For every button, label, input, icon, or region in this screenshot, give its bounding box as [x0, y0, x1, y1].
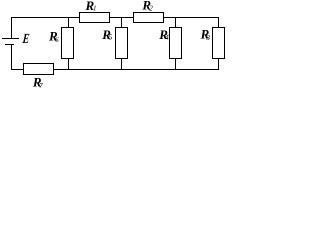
label R6	[48, 28, 59, 44]
wire R5 top lead	[121, 17, 123, 28]
resistor R7 body	[24, 64, 54, 75]
label R5	[101, 27, 113, 42]
svg-text:5: 5	[109, 34, 113, 42]
wire R4 bottom lead	[175, 58, 177, 70]
wire top rail	[11, 17, 219, 19]
wire bottom rail	[11, 69, 219, 71]
resistor R1 body	[80, 13, 110, 23]
resistor R4 body	[170, 28, 182, 59]
svg-text:6: 6	[55, 36, 59, 44]
wire R6 bottom lead	[68, 58, 70, 70]
label R2	[141, 0, 153, 13]
wire R3 top lead	[218, 17, 220, 28]
wire R4 top lead	[175, 17, 177, 28]
label R3	[200, 27, 211, 43]
svg-text:4: 4	[165, 34, 169, 42]
svg-text:1: 1	[93, 5, 97, 13]
wire R3 bottom lead	[218, 58, 220, 70]
resistor R5 body	[116, 28, 128, 59]
resistor R6 body	[62, 28, 74, 59]
label R1	[85, 0, 97, 13]
svg-text:2: 2	[149, 5, 153, 13]
label R4	[158, 27, 169, 42]
resistor R3 body	[213, 28, 225, 59]
wire R6 top lead	[68, 17, 70, 28]
resistor R2 body	[134, 13, 164, 23]
wire battery bottom lead	[11, 44, 13, 70]
svg-text:E: E	[21, 30, 30, 46]
svg-text:3: 3	[206, 34, 211, 42]
svg-text:7: 7	[39, 82, 43, 89]
battery E long plate	[2, 38, 19, 40]
battery E short plate	[5, 44, 14, 46]
wire R5 bottom lead	[121, 58, 123, 70]
wire battery top lead	[11, 17, 13, 39]
label R7	[32, 74, 43, 90]
